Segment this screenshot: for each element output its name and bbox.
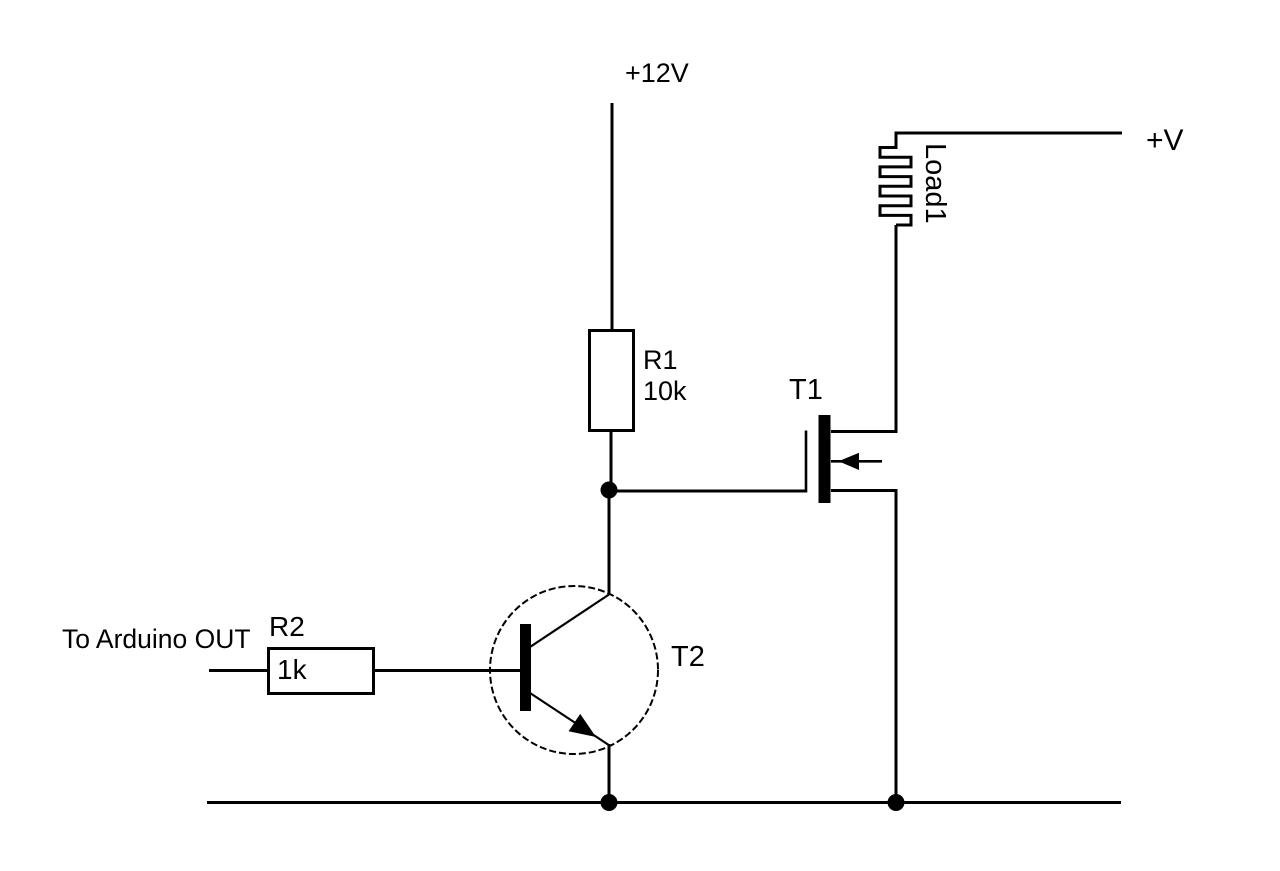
svg-text:R2: R2 [269,611,305,642]
transistor T2 body circle [490,586,658,754]
wire R2 to T2 base [375,669,520,672]
svg-text:10k: 10k [643,376,687,406]
ground rail wire [207,801,1121,804]
svg-text:T1: T1 [789,374,823,406]
svg-text:1k: 1k [277,654,308,685]
wire +12V supply to R1 top [611,103,614,330]
transistor T1 source lead [831,489,898,492]
transistor T2 emitter arrow head [569,714,596,737]
transistor T2 base bar [520,624,531,711]
inductor Load1 coil [880,133,911,225]
wire node A to T1 gate [609,490,807,493]
svg-text:To Arduino OUT: To Arduino OUT [62,624,251,654]
wire input to R2 [209,669,267,672]
wire T2 emitter to ground rail [608,744,611,803]
wire T1 drain to Load1 bottom [895,225,898,433]
transistor T2 emitter lead [530,693,610,746]
transistor T2 collector lead [530,595,609,648]
wire R1 bottom to node A [610,430,613,491]
svg-text:Load1: Load1 [919,143,951,224]
transistor T1 channel bar [819,415,831,503]
junction node A (gate/collector/R1) [601,482,618,499]
wire node A to T2 collector [608,490,611,595]
transistor T1 bulk arrow head [839,453,860,470]
transistor T1 drain lead [831,430,898,433]
transistor T1 bulk arrow line [831,460,882,463]
wire T1 source to ground rail [895,490,898,803]
wire Load1 top to +V [895,132,1123,135]
svg-text:T2: T2 [671,641,705,673]
svg-text:+12V: +12V [625,58,689,88]
resistor R2 body [269,649,374,694]
svg-text:R1: R1 [643,345,678,375]
resistor R1 body [590,331,634,431]
junction node T1 source/ground [888,794,905,811]
svg-text:+V: +V [1146,124,1184,157]
junction node emitter/ground [601,794,618,811]
transistor T1 gate line [805,431,808,493]
